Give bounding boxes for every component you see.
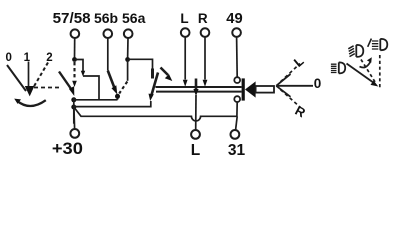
- fixed contact bar (thick): [151, 69, 154, 79]
- dashed link dial to switch lever: [34, 87, 60, 89]
- selector dashed to L: [281, 64, 301, 82]
- arrowhead of lever: [69, 86, 74, 96]
- svg-text:56a: 56a: [122, 10, 146, 26]
- lamp icon high (top-right) slash: [368, 39, 372, 47]
- dial lever 2 (dashed): [33, 63, 48, 89]
- selector lever line to 0: [278, 85, 314, 87]
- wire 56a to turn-signal contact: [128, 59, 153, 68]
- dashed lever position (57/58 dashed arrow): [73, 62, 75, 80]
- terminal 56b: [104, 29, 113, 38]
- svg-text:1: 1: [24, 52, 31, 64]
- wire common lever to bottom L: [195, 95, 197, 130]
- arrowhead 56b lever: [112, 85, 118, 94]
- terminal 49: [232, 28, 241, 37]
- dashed contact 56a to apex: [119, 82, 127, 94]
- wire junction1-junction2-down: [73, 98, 75, 124]
- svg-text:L: L: [180, 11, 188, 26]
- svg-text:0: 0: [314, 76, 322, 91]
- wire bracket 57/58 to contact: [75, 60, 84, 73]
- lamp icon mid bulb: [356, 45, 363, 57]
- lamp icon high beams: [372, 41, 378, 49]
- wire R stem down: [204, 37, 206, 80]
- svg-text:L: L: [191, 142, 200, 158]
- arrowhead R contact: [203, 80, 208, 87]
- dial pointer line: [28, 62, 30, 87]
- rotation arrow arc right: [360, 62, 371, 68]
- lever headlight switch (solid): [59, 72, 72, 90]
- arrowhead actuation: [165, 74, 173, 81]
- svg-text:R: R: [198, 11, 208, 26]
- svg-text:L: L: [291, 53, 307, 70]
- plunger triangle: [245, 81, 256, 97]
- svg-text:57/58: 57/58: [53, 11, 91, 27]
- svg-text:56b: 56b: [94, 10, 118, 26]
- svg-text:0: 0: [5, 52, 11, 64]
- wire bus to 31: [236, 116, 238, 130]
- node junction 2: [71, 105, 76, 110]
- wire L stem down: [184, 37, 186, 80]
- dial rotation arc: [17, 100, 46, 106]
- wire 31 stem: [236, 102, 238, 116]
- terminal L top: [181, 28, 190, 37]
- node junction 1 (+30 top): [71, 97, 76, 102]
- node junction 57/58: [72, 57, 77, 62]
- svg-text:R: R: [293, 103, 309, 121]
- terminal 56a: [124, 29, 133, 38]
- wire 49 stem: [236, 37, 239, 77]
- lever 56b to apex (solid thick): [108, 71, 115, 88]
- wire apex stub: [117, 97, 119, 100]
- lamp icon low (bottom-left) bulb: [339, 62, 345, 73]
- arrowhead of dashed lever: [72, 81, 77, 87]
- contact arrow down at 83: [81, 71, 85, 77]
- wire 56b stem: [107, 38, 109, 71]
- contact circle upper 49: [234, 77, 240, 83]
- terminal 57/58: [71, 29, 80, 38]
- lamp icon mid (dipped) beams slanted: [348, 46, 355, 57]
- headlamp lever solid: [347, 64, 375, 84]
- svg-text:+30: +30: [52, 140, 83, 158]
- terminal +30: [70, 129, 79, 138]
- wire 57/58 stem: [74, 38, 76, 59]
- plunger bar: [242, 78, 245, 100]
- headlamp lever dashed vertical: [379, 55, 381, 90]
- node V apex dot: [115, 94, 120, 99]
- wire line A to V apex: [74, 99, 118, 101]
- terminal L bottom: [191, 130, 200, 139]
- actuation arrow (push direction): [161, 68, 169, 76]
- dial pointer arrowhead: [25, 86, 35, 96]
- arrowhead rotation arc: [367, 57, 372, 63]
- selector dashed to R: [281, 90, 301, 108]
- headlamp lever dashed mid: [361, 60, 376, 84]
- terminal R top: [201, 28, 210, 37]
- arrowhead dial arc: [14, 99, 21, 104]
- lamp icon high bulb: [380, 39, 387, 50]
- bottom bus wire: [74, 107, 237, 121]
- svg-text:49: 49: [226, 11, 242, 27]
- plunger handle: [256, 86, 274, 93]
- arrowhead headlamp lever: [371, 81, 379, 87]
- rail lower: [156, 91, 242, 93]
- arrowhead common lever: [193, 89, 198, 96]
- arrowhead L contact: [183, 80, 188, 87]
- wire contact to box: [83, 76, 99, 100]
- wire line B from junction2 to lever pivot: [74, 101, 151, 107]
- wire +30 stem: [73, 109, 76, 129]
- selector arrowhead: [276, 74, 290, 97]
- wire 56a lower stem: [127, 60, 129, 81]
- node junction 56a: [125, 57, 130, 62]
- contact circle lower 31: [234, 96, 240, 102]
- arrowhead turn-signal lever: [149, 94, 154, 101]
- lever turn-signal (thick): [152, 73, 159, 96]
- common lever middle (thick): [195, 79, 198, 91]
- dial lever 0 (solid): [7, 65, 26, 91]
- svg-text:31: 31: [228, 142, 246, 158]
- lamp icon low (bottom-left) beams: [331, 64, 337, 72]
- terminal 31: [231, 130, 240, 139]
- wire 56a stem: [127, 38, 129, 59]
- rail upper: [156, 86, 242, 88]
